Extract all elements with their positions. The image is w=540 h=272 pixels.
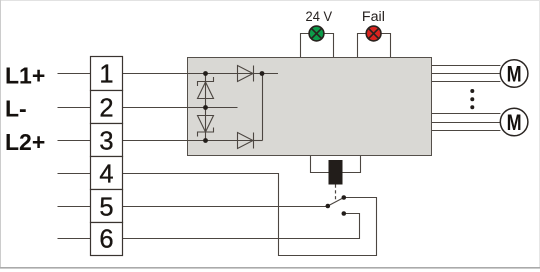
svg-text:5: 5 (99, 194, 113, 222)
svg-text:L1+: L1+ (5, 63, 45, 89)
svg-text:L2+: L2+ (5, 129, 45, 155)
svg-text:2: 2 (99, 95, 113, 123)
svg-text:6: 6 (99, 226, 113, 254)
svg-text:Fail: Fail (362, 9, 385, 24)
svg-text:3: 3 (99, 128, 113, 156)
svg-text:M: M (507, 62, 522, 87)
svg-text:M: M (507, 110, 522, 135)
svg-text:L-: L- (5, 96, 27, 122)
svg-text:4: 4 (99, 161, 113, 189)
svg-text:24 V: 24 V (306, 9, 333, 24)
svg-text:1: 1 (99, 61, 113, 89)
